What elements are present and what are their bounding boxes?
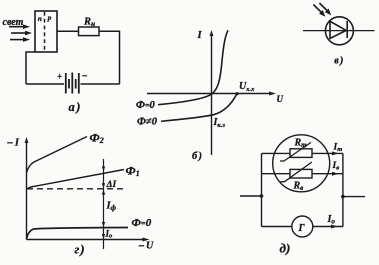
svg-text:–: – — [82, 70, 88, 80]
svg-text:Ф=0: Ф=0 — [136, 100, 156, 111]
curve Ф=0 (dark characteristic) — [158, 30, 228, 104]
resistor Rт — [290, 149, 312, 158]
light arrow 2 — [11, 31, 32, 36]
wire: Rв to right rail with current arrow Iв — [312, 172, 343, 176]
battery GB — [66, 73, 79, 94]
wire: bottom right to battery — [81, 83, 120, 85]
wire: left side up to diode — [26, 52, 35, 84]
galvanometer Г — [292, 216, 313, 237]
photodiode body VD (n-p wafer) — [35, 11, 57, 52]
light arrow 1 — [9, 24, 30, 29]
light arrow 1 into symbol — [313, 5, 325, 17]
resistor Rн (load) — [79, 27, 100, 36]
enclosure circle — [273, 135, 330, 192]
svg-text:U: U — [277, 94, 284, 104]
svg-text:– I: – I — [7, 137, 20, 148]
axis I (vertical) — [210, 30, 214, 155]
curve Ф2 — [27, 137, 88, 173]
svg-text:ΔI: ΔI — [106, 180, 117, 190]
diode cathode bar — [346, 21, 348, 38]
svg-text:в): в) — [334, 55, 344, 66]
light arrow 2 into symbol — [319, 3, 331, 15]
wire: left rail to galvanometer — [262, 226, 292, 228]
svg-text:p: p — [47, 13, 52, 22]
svg-text:Rн: Rн — [83, 17, 95, 29]
photodiode VD circle — [325, 17, 353, 45]
dashed level line — [27, 188, 126, 190]
junction left — [260, 194, 264, 198]
svg-text:+: + — [57, 72, 62, 82]
Rв slash (photoresistor stroke) — [281, 162, 312, 182]
external wire right — [343, 196, 365, 198]
Rт slash (photoresistor stroke) — [280, 142, 311, 161]
wire: galvanometer to right rail with current arrow Iо — [313, 225, 343, 229]
svg-text:Г: Г — [298, 223, 306, 234]
junction right — [341, 195, 345, 199]
axis -I (vertical) — [25, 137, 29, 240]
wire: diode to resistor — [57, 30, 79, 32]
dimension line ΔI / Iф / Iо — [102, 159, 105, 249]
node Uх.х (open-circuit point) — [235, 92, 238, 95]
svg-text:Ф≠0: Ф≠0 — [137, 116, 158, 127]
wire: left rail to Rв — [262, 173, 291, 175]
svg-text:д): д) — [280, 241, 291, 256]
curve Ф1 — [27, 170, 125, 190]
svg-text:г): г) — [75, 242, 86, 257]
external wire left — [240, 195, 262, 197]
svg-text:Ф=0: Ф=0 — [132, 217, 152, 229]
right rail — [342, 153, 344, 226]
svg-text:Iф: Iф — [106, 201, 117, 213]
wire: Rт to right rail with current arrow Iт — [312, 151, 343, 155]
wire: battery to bottom left corner — [26, 83, 64, 85]
axis U (horizontal) — [147, 92, 276, 96]
svg-text:– U: – U — [138, 241, 154, 252]
curve Ф≠0 (illuminated characteristic) — [161, 94, 237, 121]
curve Ф=0 (dark current) — [27, 228, 129, 240]
light arrow 3 — [10, 37, 30, 42]
resistor Rв — [290, 169, 312, 178]
diode triangle (anode) — [330, 21, 346, 38]
wire through photodiode — [303, 30, 375, 32]
p-n junction (dashed) — [44, 12, 46, 51]
wire: resistor to right corner — [99, 31, 120, 84]
svg-text:а): а) — [69, 100, 82, 114]
svg-text:n: n — [38, 14, 42, 23]
svg-text:б): б) — [192, 151, 203, 162]
wire: left rail to Rт — [262, 152, 291, 154]
axis -U (horizontal) — [27, 238, 150, 242]
left rail — [261, 153, 263, 226]
